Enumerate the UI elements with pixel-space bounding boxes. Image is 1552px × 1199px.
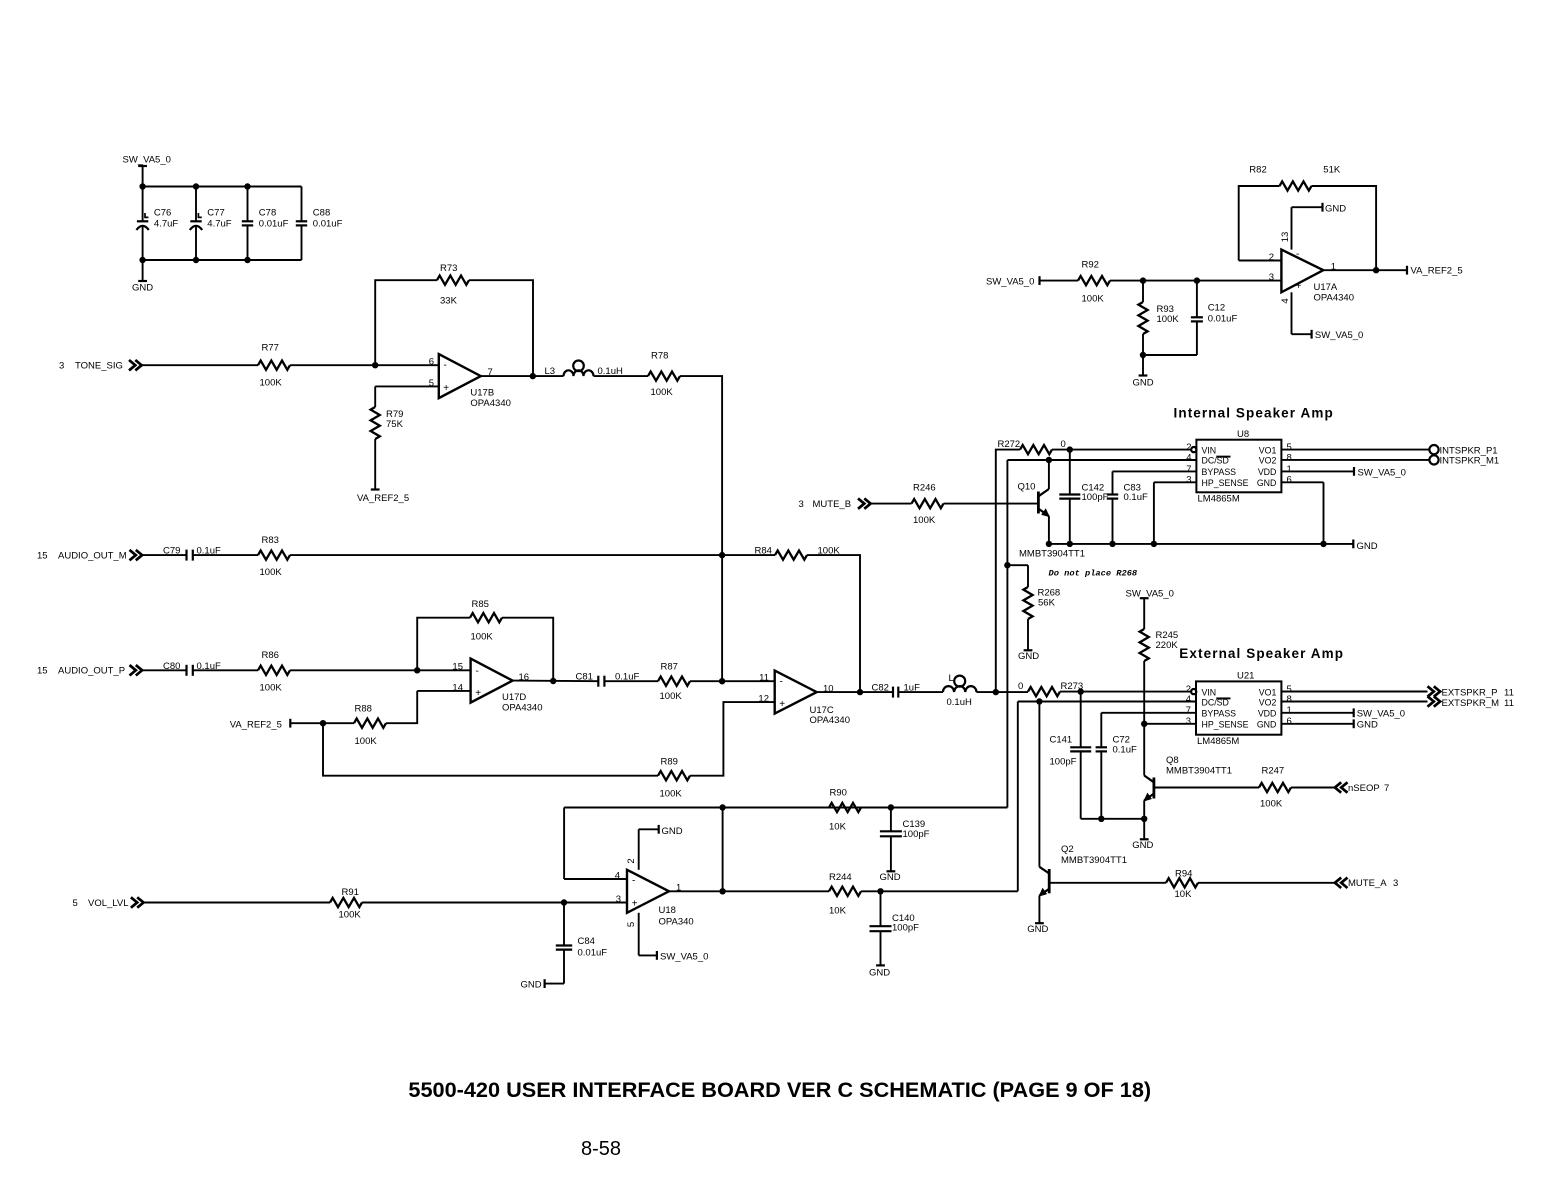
node summing U17B [372,362,378,368]
wire [1040,280,1079,282]
svg-text:13: 13 [1280,232,1291,243]
port INTSPKR_M1 [1429,455,1438,464]
wire DC/SD net [1018,701,1196,703]
wire [722,808,724,892]
svg-text:7: 7 [1384,783,1389,794]
port nSEOP [1335,782,1348,792]
op-amp U17C [775,671,817,714]
junction [1194,277,1200,283]
svg-text:External Speaker Amp: External Speaker Amp [1179,646,1344,661]
svg-text:C141: C141 [1050,734,1073,745]
junction [193,257,199,263]
svg-text:GND: GND [520,980,541,991]
pin 4 SW_VA5_0 [1291,292,1293,334]
svg-text:1: 1 [1287,705,1292,716]
svg-text:OPA4340: OPA4340 [502,703,543,714]
wire top bus [143,186,302,188]
wire base Q10 [944,503,1039,505]
wire [502,618,553,682]
wire base Q8 [1154,787,1259,789]
svg-text:R87: R87 [661,662,678,673]
ground [142,260,144,281]
wire VA_REF branch [323,723,658,776]
svg-text:GND: GND [869,967,890,978]
svg-text:3: 3 [1269,272,1274,283]
port VA_REF2_5 [1406,266,1408,275]
svg-text:VA_REF2_5: VA_REF2_5 [357,493,409,504]
svg-text:OPA4340: OPA4340 [810,715,851,726]
junction [550,678,556,684]
svg-text:SW_VA5_0: SW_VA5_0 [1357,708,1405,719]
resistor R86 [258,666,290,675]
resistor R73 [437,276,469,285]
junction [1141,721,1147,727]
wire VDD [1281,470,1354,472]
junction [320,720,326,726]
wire [290,722,354,724]
port EXTSPKR_M [1428,696,1441,706]
svg-text:GND: GND [1132,840,1153,851]
wire [290,364,439,366]
svg-text:0.1uF: 0.1uF [1113,745,1137,756]
svg-text:10K: 10K [829,821,847,832]
svg-text:6: 6 [1287,716,1292,727]
svg-text:+: + [779,699,785,710]
junction [857,689,863,695]
svg-text:+: + [443,383,449,394]
svg-text:AUDIO_OUT_P: AUDIO_OUT_P [58,666,125,677]
svg-text:R84: R84 [755,545,772,556]
wire R272 net [996,450,1020,692]
svg-text:HP_SENSE: HP_SENSE [1202,478,1249,488]
svg-text:SW_VA5_0: SW_VA5_0 [1315,330,1363,341]
svg-text:SW_VA5_0: SW_VA5_0 [1126,588,1174,599]
svg-text:VDD: VDD [1258,467,1277,477]
svg-text:OPA4340: OPA4340 [470,398,511,409]
svg-text:C81: C81 [576,672,593,683]
svg-text:R73: R73 [440,263,457,274]
wire ground rail 2 [1081,818,1145,820]
junction [1151,541,1157,547]
svg-text:4: 4 [1186,452,1191,463]
pin 13 GND [1291,207,1293,249]
capacitor C140 [880,891,882,926]
svg-text:GND: GND [1357,541,1378,552]
svg-text:C12: C12 [1208,303,1225,314]
svg-text:R90: R90 [830,787,847,798]
wire [193,669,258,671]
wire output [481,375,564,377]
ground [1035,922,1044,924]
svg-text:0.01uF: 0.01uF [578,947,608,958]
op-amp U17D [471,659,513,703]
svg-text:4.7uF: 4.7uF [154,218,178,229]
port VA_REF2_5 [371,488,380,490]
wire ground rail [1049,543,1353,545]
wire [861,890,1018,892]
resistor R82 [1280,181,1312,190]
ground [1142,355,1144,376]
svg-text:SW_VA5_0: SW_VA5_0 [660,951,708,962]
svg-text:BYPASS: BYPASS [1202,467,1237,477]
wire [604,680,658,682]
junction [139,183,145,189]
svg-text:R94: R94 [1175,868,1192,879]
capacitor C139 [890,808,892,832]
junction [719,678,725,684]
svg-text:OPA4340: OPA4340 [1314,292,1355,303]
wire DC/SD net [1007,459,1196,461]
junction [414,667,420,673]
capacitor C88 [301,187,303,222]
junction [1373,267,1379,273]
svg-text:R89: R89 [661,757,678,768]
capacitor C12 [1196,281,1198,318]
ground [887,870,896,872]
junction [1098,816,1104,822]
wire [1198,882,1335,884]
svg-text:INTSPKR_M1: INTSPKR_M1 [1440,456,1500,467]
wire [290,669,471,671]
svg-text:MMBT3904TT1: MMBT3904TT1 [1019,549,1085,560]
junction [1078,688,1084,694]
capacitor C84 [563,903,565,946]
junction [1046,541,1052,547]
resistor R89 [658,771,690,780]
svg-text:4: 4 [1186,694,1191,705]
junction [877,888,883,894]
svg-text:15: 15 [452,662,463,673]
junction [719,888,725,894]
wire [142,364,258,366]
svg-text:8: 8 [1287,694,1292,705]
wire [1143,354,1197,356]
svg-text:6: 6 [1287,475,1292,486]
svg-text:0.1uH: 0.1uH [947,697,972,708]
svg-text:33K: 33K [440,296,458,307]
ground [1353,719,1355,728]
port EXTSPKR_P [1428,686,1441,696]
resistor R88 [354,719,386,728]
capacitor C82 [892,687,894,698]
svg-text:220K: 220K [1156,640,1179,651]
svg-text:-: - [632,875,635,886]
svg-text:nSEOP: nSEOP [1348,783,1380,794]
svg-text:Do not place R268: Do not place R268 [1049,569,1138,579]
resistor R87 [658,677,690,686]
svg-text:OPA340: OPA340 [659,917,694,928]
capacitor C72 [1096,746,1107,748]
pin 2 GND [638,829,640,870]
svg-text:100K: 100K [471,632,494,643]
svg-text:U17B: U17B [470,387,494,398]
svg-text:VOL_LVL: VOL_LVL [88,898,129,909]
capacitor C77 [195,187,197,222]
svg-text:100K: 100K [339,910,362,921]
wire [143,554,187,556]
wire VO2 [1281,701,1427,703]
power SW_VA5_0 [1353,467,1355,476]
svg-text:7: 7 [1186,464,1191,475]
ground [1352,540,1354,549]
svg-text:MUTE_A: MUTE_A [1348,878,1387,889]
wire VO1 [1281,691,1427,693]
svg-text:U21: U21 [1237,671,1254,682]
svg-text:U8: U8 [1237,429,1249,440]
svg-text:GND: GND [1257,720,1277,730]
svg-text:GND: GND [1325,204,1346,215]
svg-text:4: 4 [1280,298,1291,303]
wire feedback [375,280,437,365]
wire U17D out [513,680,599,683]
ground [1143,819,1145,840]
wire [362,902,627,904]
svg-text:VO2: VO2 [1259,456,1277,466]
svg-text:VA_REF2_5: VA_REF2_5 [230,719,282,730]
pin 5 SW_VA5_0 [638,913,640,956]
svg-text:VO1: VO1 [1259,687,1277,697]
svg-text:5500-420 USER INTERFACE BOARD: 5500-420 USER INTERFACE BOARD VER C SCHE… [408,1077,1151,1102]
svg-text:GND: GND [879,872,900,883]
wire pin5 [375,385,439,387]
svg-text:C79: C79 [163,546,180,557]
svg-text:10K: 10K [829,906,847,917]
svg-text:EXTSPKR_M: EXTSPKR_M [1442,698,1500,709]
resistor R85 [470,613,502,622]
svg-text:3: 3 [1186,716,1191,727]
svg-text:100K: 100K [355,736,378,747]
svg-text:VO1: VO1 [1259,445,1277,455]
svg-text:AUDIO_OUT_M: AUDIO_OUT_M [58,551,127,562]
svg-text:100pF: 100pF [903,829,930,840]
capacitor C78 [247,187,249,222]
resistor R90 [829,803,861,812]
svg-text:7: 7 [1186,705,1191,716]
svg-text:R85: R85 [472,599,489,610]
svg-text:-: - [444,360,447,371]
svg-text:56K: 56K [1038,597,1056,608]
wire VO1 [1281,449,1429,451]
svg-text:C82: C82 [872,683,889,694]
wire output [669,890,829,892]
svg-text:+: + [1296,281,1302,292]
svg-text:-: - [476,666,479,677]
svg-text:SW_VA5_0: SW_VA5_0 [986,276,1034,287]
capacitor C83 [1107,493,1118,495]
svg-text:2: 2 [626,858,637,863]
junction [1320,541,1326,547]
wire to pin12 [690,702,775,776]
svg-text:1: 1 [1287,464,1292,475]
wire GND pin6 [1281,723,1353,725]
wire R268 branch [1007,564,1028,566]
junction [1004,562,1010,568]
junction [993,689,999,695]
junction [244,257,250,263]
svg-text:-: - [1296,249,1299,260]
svg-text:0: 0 [1018,681,1023,692]
capacitor C80 [185,665,187,676]
wire base Q2 [1049,882,1166,884]
op-amp U17A [1281,250,1323,293]
svg-text:3: 3 [1393,878,1398,889]
svg-text:R244: R244 [829,872,852,883]
svg-text:0: 0 [1061,439,1066,450]
junction [530,373,536,379]
svg-text:GND: GND [1132,377,1153,388]
resistor R77 [258,361,290,370]
svg-text:+: + [632,898,638,909]
svg-text:100K: 100K [1082,294,1105,305]
svg-text:15: 15 [37,666,48,677]
capacitor C142 [1069,450,1071,495]
svg-text:R247: R247 [1262,766,1285,777]
wire HP_SENSE [1154,481,1197,483]
svg-text:GND: GND [1257,478,1277,488]
junction [719,804,725,810]
junction [193,183,199,189]
junction [1141,816,1147,822]
svg-text:C80: C80 [163,661,180,672]
resistor R244 [829,887,861,896]
svg-text:C77: C77 [207,208,224,219]
svg-text:R246: R246 [913,483,936,494]
svg-text:11: 11 [759,673,769,684]
svg-text:100K: 100K [1157,314,1180,325]
svg-text:R88: R88 [355,704,372,715]
svg-text:+: + [475,688,481,699]
wire [386,691,417,723]
svg-text:51K: 51K [1323,165,1341,176]
wire [1291,787,1335,789]
junction [1067,446,1073,452]
capacitor C81 [597,676,599,687]
junction [1140,352,1146,358]
ground [876,964,885,966]
svg-text:4: 4 [615,870,620,881]
svg-text:3: 3 [1186,475,1191,486]
svg-text:0.01uF: 0.01uF [1208,314,1238,325]
wire [977,691,1029,693]
svg-text:100K: 100K [260,377,283,388]
svg-text:5: 5 [626,922,637,927]
capacitor C76 [142,187,144,222]
svg-text:100pF: 100pF [1050,757,1077,768]
ground [545,983,564,985]
svg-text:100pF: 100pF [1082,492,1109,503]
svg-text:4.7uF: 4.7uF [207,218,231,229]
svg-text:100K: 100K [660,691,683,702]
junction [561,899,567,905]
svg-text:100K: 100K [1260,798,1283,809]
svg-text:L: L [949,673,954,684]
svg-text:12: 12 [758,694,769,705]
wire [898,691,943,693]
svg-text:Q8: Q8 [1166,755,1179,766]
wire [722,554,775,556]
svg-text:R92: R92 [1082,260,1099,271]
svg-text:0.01uF: 0.01uF [313,218,343,229]
svg-text:0.1uF: 0.1uF [1124,492,1148,503]
svg-text:6: 6 [429,357,434,368]
wire GND pin6 [1281,481,1323,483]
svg-text:GND: GND [662,826,683,837]
svg-text:100K: 100K [260,567,283,578]
resistor R94 [1166,878,1198,887]
wire [871,503,912,505]
wire [594,375,649,377]
svg-text:BYPASS: BYPASS [1202,709,1237,719]
svg-text:Internal Speaker Amp: Internal Speaker Amp [1174,405,1334,420]
svg-text:R91: R91 [342,887,359,898]
junction [1109,541,1115,547]
svg-text:100K: 100K [260,683,283,694]
svg-text:R86: R86 [262,650,279,661]
svg-text:R77: R77 [262,343,279,354]
svg-text:R78: R78 [651,351,668,362]
svg-text:GND: GND [1357,720,1378,731]
power SW_VA5_0 [1353,708,1355,717]
resistor R92 [1078,276,1110,285]
svg-text:15: 15 [37,551,48,562]
wire [1052,449,1191,451]
resistor R268 [1023,587,1032,619]
wire [1110,280,1281,282]
svg-text:C78: C78 [259,208,276,219]
resistor R245 [1140,629,1149,661]
wire VDD [1281,712,1353,714]
junction [888,804,894,810]
junction [1046,457,1052,463]
svg-text:L3: L3 [545,366,556,377]
resistor R247 [1259,783,1291,792]
svg-text:U18: U18 [659,905,676,916]
wire [143,669,187,671]
wire feedback [417,618,470,671]
svg-text:R82: R82 [1249,165,1266,176]
svg-text:-: - [780,677,783,688]
wire [193,554,258,556]
svg-text:C84: C84 [578,936,595,947]
svg-text:8-58: 8-58 [581,1138,621,1160]
wire [290,554,722,556]
svg-text:VDD: VDD [1258,709,1277,719]
svg-text:75K: 75K [386,419,404,430]
resistor R83 [258,551,290,560]
wire output [817,691,893,693]
svg-text:100K: 100K [651,387,674,398]
wire BYPASS [1113,470,1197,472]
svg-text:100K: 100K [913,515,936,526]
wire to summing node [680,376,722,681]
svg-text:MMBT3904TT1: MMBT3904TT1 [1061,855,1127,866]
wire [469,280,533,376]
wire feedback [1239,186,1280,261]
svg-text:11: 11 [1504,698,1514,709]
svg-text:R83: R83 [262,535,279,546]
svg-text:GND: GND [132,283,153,294]
wire BYPASS [1101,712,1196,714]
svg-text:SW_VA5_0: SW_VA5_0 [1358,467,1406,478]
svg-text:MMBT3904TT1: MMBT3904TT1 [1166,766,1232,777]
svg-text:100pF: 100pF [892,923,919,934]
wire R90 line [564,807,1007,809]
wire pin2 [1239,260,1282,262]
svg-text:5: 5 [73,898,78,909]
wire pin11 [690,680,775,682]
svg-text:3: 3 [799,499,804,510]
svg-text:VA_REF2_5: VA_REF2_5 [1411,265,1463,276]
